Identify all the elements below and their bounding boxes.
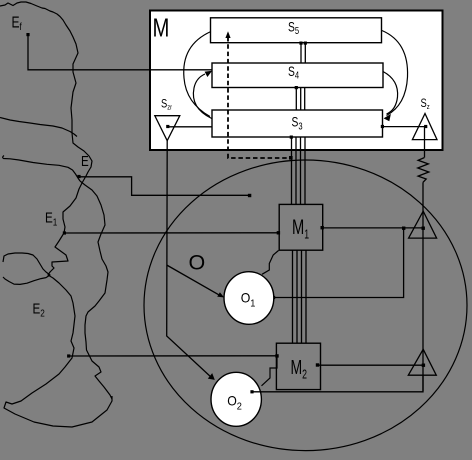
svg-text:M: M bbox=[153, 13, 170, 42]
node O2 inner dot bbox=[250, 390, 253, 393]
wire M1 output to triangle 1 bbox=[322, 227, 423, 229]
resistor zigzag bbox=[418, 158, 429, 183]
node O1 edge dot bbox=[272, 296, 275, 299]
circle O2 bbox=[211, 372, 261, 426]
node E wire end dot bbox=[248, 194, 251, 197]
wire O2 to triangle 2 base bbox=[252, 375, 423, 392]
node E dot bbox=[77, 175, 80, 178]
svg-text:E: E bbox=[81, 153, 89, 170]
node E2 dot bbox=[67, 354, 70, 357]
wire M2 output to triangle 2 bbox=[318, 364, 424, 366]
wire E2 to M2 bbox=[69, 355, 277, 357]
node Ef dot bbox=[26, 33, 29, 36]
node S3 right dot bbox=[381, 125, 384, 128]
wire branch to O1 bbox=[167, 265, 221, 296]
register S3 bbox=[212, 110, 383, 137]
node junction dot on M1 output bbox=[402, 227, 405, 230]
node M2 right dot bbox=[316, 363, 319, 366]
wire junction down and to O1 bbox=[274, 228, 404, 297]
boundary curve W2 upper line bbox=[0, 118, 77, 137]
block M (outer white box) bbox=[150, 11, 443, 151]
register S4 bbox=[212, 63, 383, 88]
node M2 left dot bbox=[275, 354, 278, 357]
bus S5 to S4 (2 lines) bbox=[301, 43, 305, 63]
boundary curve W1 (long meander from top-left to bottom) bbox=[0, 2, 112, 427]
wire resistor down to amplifier chain bbox=[422, 183, 424, 391]
bus S3-M1 dot bbox=[290, 136, 293, 139]
node M1 right dot bbox=[321, 226, 324, 229]
ellipse O boundary bbox=[144, 160, 467, 451]
sensor s_z triangle bbox=[412, 114, 437, 140]
arrowhead of dashed wire bbox=[225, 31, 230, 38]
wire E1 to M1 bbox=[64, 232, 278, 234]
arrowhead into S4 left bbox=[205, 71, 213, 77]
node s_z dot bbox=[424, 125, 427, 128]
sensor s_r triangle bbox=[155, 116, 180, 141]
wire Ef to S4 bbox=[28, 35, 212, 70]
wire s_z down to resistor bbox=[424, 127, 426, 158]
bus S4-S3 dot bbox=[295, 86, 298, 89]
boundary curve W2 lower line bbox=[3, 156, 80, 182]
block M1 bbox=[279, 204, 323, 250]
circle O1 bbox=[224, 272, 274, 325]
arrowhead into S3 right bbox=[384, 114, 391, 121]
arc S3 to S4 (left short, arrow into S4) bbox=[193, 74, 211, 119]
node s_r dot bbox=[166, 125, 169, 128]
amplifier triangle 2 bbox=[408, 349, 436, 375]
wire s_r to S3 bbox=[168, 126, 212, 128]
wire S3 to s_z bbox=[383, 126, 426, 128]
connector M1 to O1 (jagged) bbox=[262, 251, 279, 275]
wire s_r output down bbox=[167, 141, 212, 378]
bus S3 to M1 (4 lines) bbox=[292, 137, 306, 204]
connector M2 to O2 (jagged) bbox=[262, 356, 278, 386]
arc S5 to S3 (right long) bbox=[382, 31, 408, 116]
arrowhead into O2 bbox=[208, 373, 215, 380]
dashed feedback wire with up arrow bbox=[228, 37, 290, 158]
node dot triangle 2 center bbox=[422, 364, 425, 367]
svg-text:O: O bbox=[189, 251, 206, 275]
bus S5-S4 dots bbox=[299, 42, 302, 45]
block M2 bbox=[276, 343, 320, 389]
node dot at vertical line (triangle 1 center) bbox=[422, 227, 425, 230]
wire E to free node bbox=[79, 177, 250, 196]
bus S4 to S3 (3 lines) bbox=[296, 88, 304, 111]
arc S4 to S3 (right short) bbox=[383, 72, 398, 115]
node M1 left dot bbox=[277, 231, 280, 234]
boundary curve W5 (second meander) bbox=[80, 181, 112, 399]
register S5 bbox=[211, 18, 382, 43]
node E1 dot bbox=[63, 231, 66, 234]
amplifier triangle 1 bbox=[409, 211, 437, 238]
terminal square of dashed wire bbox=[289, 156, 293, 160]
bus M1 to M2 (4 lines) bbox=[293, 250, 307, 343]
boundary curve W3 (hook peninsula) bbox=[3, 253, 50, 284]
arrowhead into O1 bbox=[217, 292, 224, 297]
arc S5 to S3 (left long) bbox=[184, 32, 211, 117]
